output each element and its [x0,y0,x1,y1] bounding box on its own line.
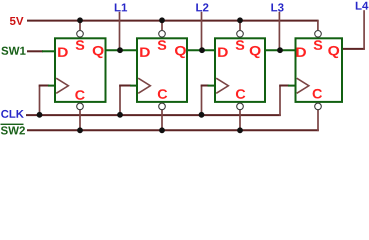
junction SW2-C3 [237,127,243,133]
net CLK rail [26,114,281,116]
wire SW1 to D1 [27,50,43,52]
pin label S2 [158,40,167,50]
pin label Q4 [328,46,339,58]
wire SW2 riser to C4 [317,110,319,131]
label L2 [196,3,208,11]
wire S1 stub [79,20,81,30]
flip-flop U3 body [215,38,265,102]
bubble S3 [237,31,244,38]
pin CLK3 stub [208,85,217,87]
bubble S2 [159,31,166,38]
flip-flop U4 clock triangle [297,78,309,93]
wire Q3 to D4 [264,49,297,51]
wire L1 lamp lead [119,12,121,50]
wire L2 lamp lead [201,12,203,50]
pin CLK2 stub [130,85,138,87]
pin label D2 [140,48,150,57]
pin label C4 [313,89,322,99]
pin CLK1 stub [48,85,56,87]
flip-flop U1 clock triangle [56,78,68,93]
pin label C3 [236,89,245,99]
flip-flop U2 clock triangle [138,78,150,93]
label CLK [1,110,24,118]
pin label Q1 [93,46,104,58]
pin CLK4 stub [288,85,297,87]
bubble C4 [315,103,322,110]
pin label D1 [58,48,68,57]
junction CLK-3 [199,112,205,118]
wire S3 stub [239,20,241,30]
junction Q1-L1 [117,47,123,53]
flip-flop U1 body [55,38,106,102]
pin label Q3 [250,46,261,58]
label 5V [10,17,24,25]
bubble S1 [77,31,84,38]
label SW2 [1,126,25,134]
wire Q2 to D3 [186,49,217,51]
wire Q4 to L4 [343,48,365,50]
pin label D3 [218,48,228,57]
wire CLK branch 3 [201,86,203,116]
pin label D4 [296,48,306,57]
bubble S4 [315,31,322,38]
wire L4 riser [363,10,365,50]
junction CLK-2 [117,112,123,118]
wire CLK branch 2 [119,86,121,116]
pin label Q2 [175,46,186,58]
bubble C1 [77,103,84,110]
junction CLK-1 [37,112,43,118]
flip-flop U3 clock triangle [216,78,228,93]
net SW2 rail [27,129,319,131]
pin label S3 [236,40,245,50]
pin label S1 [76,40,85,50]
pin label C1 [75,90,84,100]
pin label C2 [158,89,167,99]
label SW2 overline [1,124,24,125]
label L1 [115,3,127,11]
junction SW2-C1 [77,127,83,133]
junction 5V-S1 [77,17,83,23]
wire L3 lamp lead [278,12,280,50]
wire CLK branch 1 [39,86,41,116]
wire CLK riser to U4 [279,86,281,116]
wire 5V drop to S4 [317,20,319,30]
wire C3 to SW2 [239,110,241,131]
label L3 [271,3,283,11]
wire C1 to SW2 [79,110,81,131]
junction 5V-S3 [237,17,243,23]
flip-flop U2 body [137,38,187,102]
bubble C3 [237,103,244,110]
wire S2 stub [161,20,163,30]
wire C2 to SW2 [161,110,163,131]
wire Q1 to D2 [105,49,139,51]
label SW1 [1,47,25,55]
bubble C2 [159,103,166,110]
flip-flop U4 body [296,38,343,102]
junction Q2-L2 [199,47,205,53]
net 5V rail [27,20,319,22]
label L4 [356,2,369,10]
junction 5V-S2 [159,17,165,23]
junction SW2-C2 [159,127,165,133]
junction Q3-L3 [277,47,283,53]
pin label S4 [314,40,323,50]
pin D1 stub [42,50,55,52]
